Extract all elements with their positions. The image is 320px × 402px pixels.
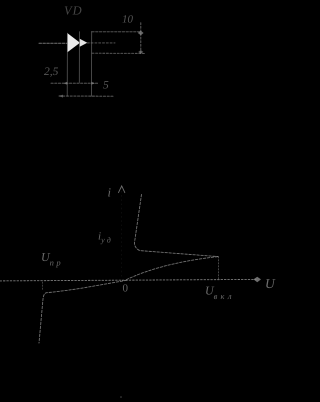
dimension arrow top	[138, 31, 144, 36]
svg-text:0: 0	[123, 283, 129, 295]
svg-text:U: U	[265, 276, 276, 291]
x-axis arrowhead	[254, 277, 262, 283]
dimension line 10 (vertical at x=140.8)	[140, 23, 142, 54]
wire: input lead	[39, 42, 67, 44]
diode VD: anode triangle	[67, 33, 80, 52]
curve: forward blocking branch	[127, 257, 219, 280]
x-axis U (dashed)	[0, 279, 256, 281]
tick at Upr (x=42.5)	[42, 282, 44, 290]
extension line (middle, x=79.4)	[78, 32, 80, 83]
wire: output lead	[87, 42, 115, 44]
svg-text:i: i	[108, 186, 112, 200]
svg-text:10: 10	[122, 14, 134, 26]
extension line top (y=31.8)	[92, 31, 141, 33]
arrow at x=66.8	[63, 82, 67, 85]
speck bottom center	[120, 396, 122, 398]
arrow at x=91.5	[91, 82, 95, 85]
dimension line 5 (y=96)	[59, 95, 113, 97]
tick left end	[59, 95, 63, 98]
y-axis arrowhead	[119, 186, 125, 193]
diode VD: small triangle (arrow)	[80, 39, 88, 47]
extension line (right, x=91.6)	[91, 32, 93, 97]
extension line bottom (y=53.2)	[92, 52, 145, 54]
curve: reverse branch	[39, 280, 127, 343]
svg-text:5: 5	[103, 80, 109, 92]
y-axis i (very faint)	[121, 187, 123, 280]
extension line (left, x=67.4)	[66, 33, 68, 96]
svg-text:VD: VD	[64, 4, 83, 18]
dimension arrow bottom	[138, 50, 143, 54]
dashed drop at Uvkl (x=218.6)	[218, 257, 220, 279]
curve: conduction branch + negative resistance	[135, 195, 218, 257]
dimension line 2,5 (y=83.2)	[51, 82, 99, 84]
svg-text:2,5: 2,5	[44, 66, 59, 78]
